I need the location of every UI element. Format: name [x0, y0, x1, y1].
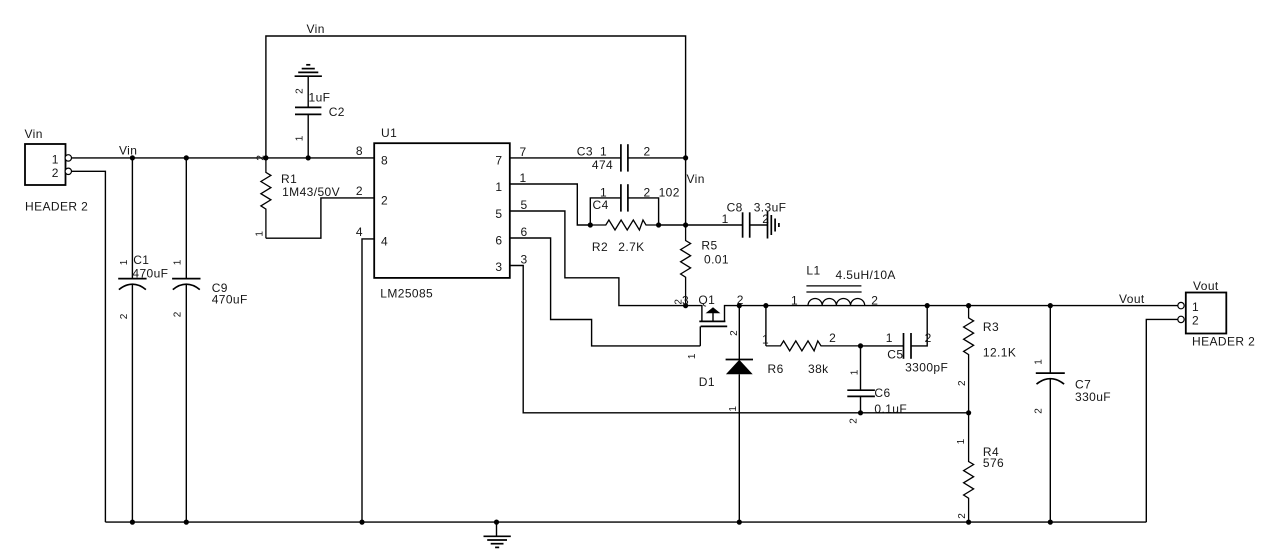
resistor R2 2.7K	[590, 220, 658, 254]
svg-text:330uF: 330uF	[1075, 390, 1111, 404]
junction C7 bottom	[1048, 520, 1053, 525]
svg-text:2: 2	[119, 313, 130, 319]
svg-text:3: 3	[495, 260, 502, 274]
junction C1 bottom	[130, 520, 135, 525]
svg-text:2: 2	[356, 184, 363, 198]
svg-text:38k: 38k	[808, 362, 829, 376]
svg-text:0.01: 0.01	[704, 252, 729, 266]
wire J2 pin2 down to ground rail	[1146, 319, 1178, 522]
svg-text:1: 1	[254, 231, 265, 237]
J2 pin 2 circle	[1178, 316, 1184, 322]
svg-text:C2: C2	[329, 105, 345, 119]
wire R2 right to Vin vertical	[659, 224, 686, 226]
svg-text:2: 2	[173, 311, 184, 317]
junction R5 bottom / Q1	[683, 303, 688, 308]
capacitor C4 102	[590, 184, 680, 225]
wire C8 to ground	[750, 224, 768, 226]
svg-text:7: 7	[495, 154, 502, 168]
svg-text:470uF: 470uF	[212, 293, 248, 307]
svg-text:3: 3	[521, 252, 528, 266]
svg-text:Vin: Vin	[687, 172, 705, 186]
wire U1 pin1 down to R2/C4	[510, 184, 591, 225]
junction C5 top	[925, 303, 930, 308]
svg-text:C5: C5	[887, 347, 903, 361]
junction Vin vertical / R5 / C8	[683, 222, 688, 227]
wire ground rail bottom	[105, 521, 1146, 523]
svg-text:5: 5	[495, 207, 502, 221]
svg-text:2: 2	[957, 380, 968, 386]
capacitor C1 470uF	[118, 158, 168, 522]
wire U1 pin3 to feedback row	[510, 266, 969, 413]
svg-text:474: 474	[592, 158, 613, 172]
svg-text:1: 1	[520, 171, 527, 185]
svg-text:4.5uH/10A: 4.5uH/10A	[836, 268, 896, 282]
svg-text:2: 2	[925, 331, 932, 345]
svg-text:2: 2	[381, 194, 388, 208]
svg-text:1: 1	[1034, 359, 1045, 365]
wire U1 pin4 down to ground rail	[362, 239, 374, 522]
svg-text:1M43/50V: 1M43/50V	[282, 185, 340, 199]
transistor Q1 PMOS	[687, 293, 744, 359]
J1 pin 2 circle	[65, 168, 71, 174]
svg-text:1: 1	[600, 145, 607, 159]
svg-text:2: 2	[829, 331, 836, 345]
U1 pin 2	[356, 184, 388, 208]
junction C7 top	[1048, 303, 1053, 308]
svg-text:4: 4	[356, 225, 363, 239]
junction C3/Vin vertical	[683, 155, 688, 160]
svg-text:2.7K: 2.7K	[618, 240, 644, 254]
inductor L1 4.5uH/10A	[791, 263, 896, 307]
wire to C8	[686, 224, 743, 226]
capacitor C7 330uF	[1034, 306, 1112, 522]
svg-text:2: 2	[644, 145, 651, 159]
J2 pin 1 circle	[1178, 302, 1184, 308]
wire C3 right to Vin vertical	[628, 157, 686, 159]
resistor R5 0.01	[681, 225, 729, 306]
junction C9 bottom	[184, 520, 189, 525]
svg-text:Vout: Vout	[1193, 279, 1219, 293]
junction R3 top	[966, 303, 971, 308]
svg-text:Vin: Vin	[119, 144, 137, 158]
resistor R3 12.1K	[957, 306, 1016, 413]
capacitor C6 0.1uF	[847, 346, 907, 424]
svg-text:1: 1	[728, 406, 739, 412]
svg-text:Vin: Vin	[307, 22, 325, 36]
svg-text:2: 2	[849, 418, 860, 424]
svg-text:1: 1	[119, 259, 130, 265]
svg-text:Vout: Vout	[1119, 292, 1145, 306]
svg-text:1: 1	[1192, 300, 1199, 314]
svg-text:1: 1	[495, 180, 502, 194]
junction R6 branch	[763, 303, 768, 308]
junction C2 bottom	[306, 155, 311, 160]
svg-text:Q1: Q1	[698, 293, 715, 307]
capacitor C2 1uF	[294, 76, 344, 158]
junction R1 top / top rail	[263, 155, 268, 160]
svg-text:HEADER 2: HEADER 2	[1192, 334, 1255, 348]
U1 pin 6	[495, 225, 527, 248]
svg-text:3300pF: 3300pF	[905, 360, 948, 374]
svg-text:6: 6	[521, 225, 528, 239]
svg-text:102: 102	[659, 185, 680, 199]
svg-text:2: 2	[957, 513, 968, 519]
U1 pin 8	[356, 144, 388, 168]
junction C6 bottom	[858, 410, 863, 415]
svg-text:1: 1	[294, 135, 305, 141]
svg-text:0.1uF: 0.1uF	[874, 402, 907, 416]
wire Vin vertical down to R2 row	[685, 158, 687, 225]
capacitor C5 3300pF	[861, 306, 949, 375]
resistor R1 1M43/50V	[254, 155, 340, 239]
wire Q1 source lead	[686, 306, 702, 322]
wire U1 pin5 staircase to Q1 source node	[510, 211, 686, 306]
connector J1 Vin HEADER 2	[25, 127, 89, 214]
svg-text:2: 2	[729, 330, 740, 336]
ground (rotated) at C8	[768, 212, 779, 239]
wire R1 bottom to U1 pin2	[266, 198, 374, 238]
capacitor C8 3.3uF	[722, 200, 787, 237]
wire top Vin rail	[266, 36, 686, 158]
wire U1 pin7 to C3	[510, 157, 621, 159]
svg-text:1: 1	[956, 438, 967, 444]
U1 pin 7	[495, 145, 526, 168]
svg-text:12.1K: 12.1K	[983, 346, 1016, 360]
junction R3/R4	[966, 410, 971, 415]
junction R4 bottom	[966, 520, 971, 525]
U1 pin 4	[356, 225, 388, 249]
wire Vin main row from J1 pin1 to U1 pin8	[72, 157, 375, 159]
svg-text:576: 576	[983, 456, 1004, 470]
svg-text:HEADER 2: HEADER 2	[25, 200, 88, 214]
svg-text:2: 2	[52, 166, 59, 180]
junction Q1/D1	[737, 303, 742, 308]
svg-text:C4: C4	[593, 198, 609, 212]
resistor R4 576	[956, 413, 1004, 522]
svg-text:4: 4	[381, 235, 388, 249]
svg-text:5: 5	[521, 198, 528, 212]
svg-text:8: 8	[381, 154, 388, 168]
svg-text:1: 1	[762, 332, 769, 346]
svg-text:R1: R1	[281, 172, 297, 186]
connector J2 Vout HEADER 2	[1186, 279, 1255, 348]
svg-text:6: 6	[495, 234, 502, 248]
junction C1 top	[130, 155, 135, 160]
svg-text:R3: R3	[983, 320, 999, 334]
svg-text:1: 1	[850, 369, 861, 375]
svg-text:8: 8	[356, 144, 363, 158]
svg-text:7: 7	[520, 145, 527, 159]
wire J1 pin2 down to ground rail	[72, 171, 106, 522]
svg-text:1: 1	[687, 353, 698, 359]
svg-text:2: 2	[871, 294, 878, 308]
svg-text:2: 2	[1034, 408, 1045, 414]
svg-text:R6: R6	[768, 362, 784, 376]
capacitor C3 474	[577, 144, 651, 172]
J1 pin 1 circle	[65, 155, 71, 161]
wire U1 pin6 staircase to Q1 gate	[510, 238, 701, 346]
svg-text:LM25085: LM25085	[380, 287, 433, 301]
svg-text:1: 1	[886, 331, 893, 345]
U1 pin 1	[495, 171, 526, 194]
svg-text:D1: D1	[699, 375, 715, 389]
resistor R6 38k	[762, 331, 861, 376]
svg-text:R5: R5	[701, 239, 717, 253]
svg-text:R2: R2	[592, 240, 608, 254]
svg-text:1: 1	[173, 259, 184, 265]
svg-text:C3: C3	[577, 145, 593, 159]
svg-text:2: 2	[294, 88, 305, 94]
svg-text:U1: U1	[381, 126, 397, 140]
op-amp U1 LM25085 body	[374, 126, 510, 301]
svg-text:C8: C8	[727, 200, 743, 214]
svg-text:2: 2	[1192, 314, 1199, 328]
svg-text:1: 1	[791, 294, 798, 308]
U1 pin 5	[495, 198, 527, 221]
svg-text:L1: L1	[806, 263, 820, 277]
capacitor C9 470uF	[172, 158, 248, 522]
svg-text:Vin: Vin	[25, 127, 43, 141]
svg-text:1uF: 1uF	[309, 90, 331, 104]
svg-text:1: 1	[722, 212, 729, 226]
junction R2 left / C4 / pin1	[588, 222, 593, 227]
junction pin4 ground	[359, 520, 364, 525]
wire R6 branch down	[765, 306, 767, 346]
ground symbol bottom center	[484, 522, 511, 547]
diode D1	[699, 306, 753, 522]
junction R6/C5/C6	[858, 343, 863, 348]
junction D1 ground rail	[737, 520, 742, 525]
svg-text:3.3uF: 3.3uF	[754, 200, 787, 214]
U1 pin 3	[495, 252, 527, 274]
wire Q1 drain to L1 row	[739, 305, 1178, 307]
ground (inverted) above C2	[295, 65, 322, 76]
svg-text:2: 2	[644, 185, 651, 199]
junction C9 top	[184, 155, 189, 160]
svg-text:1: 1	[52, 153, 59, 167]
junction ground rail	[494, 520, 499, 525]
svg-text:470uF: 470uF	[132, 266, 168, 280]
svg-text:C6: C6	[874, 386, 890, 400]
junction R2 right / C4	[656, 222, 661, 227]
svg-text:C1: C1	[133, 253, 149, 267]
